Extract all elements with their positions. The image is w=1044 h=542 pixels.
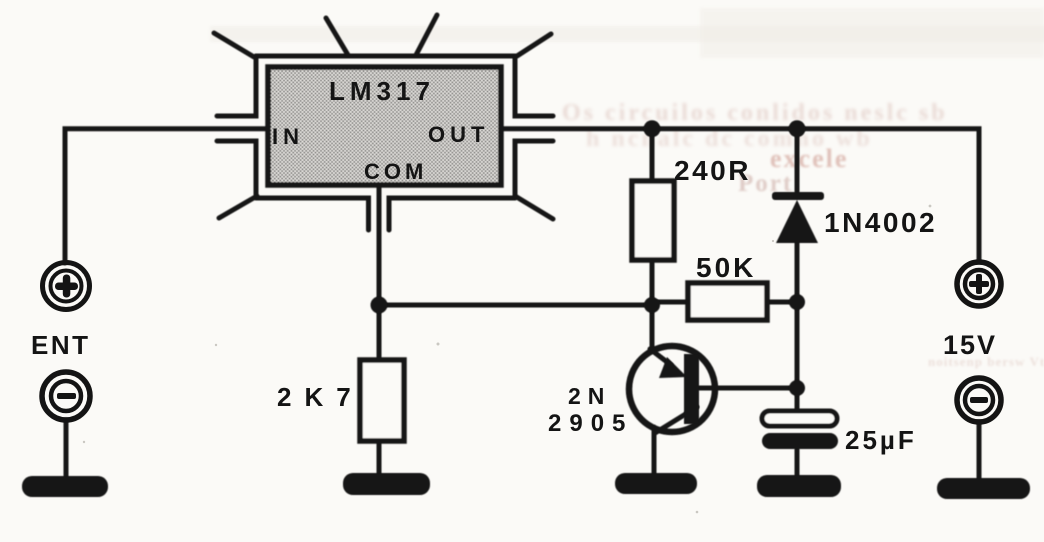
- terminal input plus: [43, 263, 90, 310]
- wire: COM pin down to node: [377, 185, 382, 305]
- node C junction diode top: [789, 120, 806, 137]
- wire: node to 240R/50K junction: [379, 303, 652, 308]
- svg-text:1N4002: 1N4002: [824, 207, 937, 238]
- svg-text:OUT: OUT: [428, 122, 489, 147]
- wire: base to diode/cap node: [699, 386, 797, 391]
- heat ray top mid-left: [326, 18, 348, 55]
- bleed-through text line 4: [738, 170, 793, 197]
- svg-text:2905: 2905: [548, 410, 633, 437]
- paper specks: [83, 205, 932, 514]
- LM317 outer outline top edge: [256, 54, 515, 59]
- node D junction 240R bottom: [644, 297, 660, 313]
- LM317 outer outline left edge lower with tick: [217, 141, 256, 198]
- transistor Q1 emitter arrowhead: [659, 357, 687, 378]
- svg-text:15V: 15V: [943, 330, 997, 360]
- diode D1 cathode bar: [772, 192, 824, 200]
- diode D1 top lead: [795, 129, 800, 192]
- bleed-through text line 2: [586, 126, 873, 152]
- transistor Q1 collector diagonal: [655, 407, 697, 433]
- paper wash top: [210, 26, 1044, 42]
- svg-text:LM317: LM317: [329, 76, 435, 106]
- bleed-through text line 3: [770, 144, 848, 173]
- node B junction 240R top: [644, 120, 661, 137]
- terminal input minus: [42, 372, 90, 420]
- ground 2K7: [343, 473, 430, 495]
- op-amp U1 LM317 regulator body: [268, 67, 501, 185]
- heat ray top mid-right: [416, 15, 437, 55]
- svg-text:IN: IN: [272, 124, 304, 149]
- svg-text:ENT: ENT: [31, 330, 91, 360]
- transistor Q1 2N2905 emitter lead: [650, 305, 655, 351]
- LM317 outer outline bottom-right edge with COM stub: [389, 198, 515, 230]
- heat ray bottom-left: [219, 196, 257, 218]
- heat ray top-right: [517, 34, 551, 56]
- bleed-through text line 1: [562, 100, 948, 126]
- terminal output plus: [957, 262, 1001, 306]
- svg-text:50K: 50K: [696, 252, 756, 283]
- ground capacitor: [757, 475, 841, 497]
- LM317 outer outline right edge lower with tick: [515, 141, 553, 198]
- LM317 outer outline bottom-left edge with COM stub: [256, 198, 369, 230]
- LM317 outer outline right edge upper with tick: [515, 56, 553, 116]
- minus bar input: [57, 393, 76, 399]
- resistor R1 240R top lead: [650, 129, 655, 181]
- resistor R2 50K left lead: [652, 300, 688, 305]
- LM317 outer outline left edge upper with tick: [217, 56, 256, 116]
- resistor R1 240R body: [632, 181, 674, 260]
- transistor Q1 base bar: [684, 354, 699, 424]
- capacitor C1 bottom plate: [762, 433, 838, 449]
- node E junction 50K right: [789, 294, 805, 310]
- wire: IN rail from input terminal to IC: [65, 129, 268, 263]
- ground transistor: [615, 473, 697, 494]
- wire: input minus terminal to ground: [64, 420, 69, 478]
- resistor R3 2K7 body: [360, 360, 404, 441]
- svg-text:2K7: 2K7: [277, 382, 364, 412]
- resistor R2 50K body: [688, 283, 767, 320]
- capacitor C1 bottom lead: [795, 449, 800, 478]
- heat ray bottom-right: [515, 196, 553, 219]
- resistor R3 2K7 bottom lead: [377, 441, 382, 478]
- diode D1 bottom lead: [795, 240, 800, 413]
- svg-text:25µF: 25µF: [845, 425, 917, 455]
- transistor Q1 collector lead down: [652, 427, 657, 476]
- transistor Q1 2N2905 circle: [629, 346, 715, 432]
- svg-text:2N: 2N: [568, 383, 611, 409]
- node F junction base: [789, 380, 805, 396]
- resistor R2 50K right lead: [767, 300, 797, 305]
- resistor R1 240R bottom lead: [650, 260, 655, 305]
- ground output: [937, 478, 1030, 499]
- transistor Q1 emitter diagonal: [650, 349, 671, 365]
- minus bar output: [970, 397, 988, 403]
- resistor R3 2K7 top lead: [377, 305, 382, 360]
- svg-text:excele: excele: [770, 144, 848, 173]
- svg-text:Os circuilos conlidos neslc sb: Os circuilos conlidos neslc sb: [562, 100, 948, 126]
- diode D1 triangle: [776, 200, 818, 243]
- wire: OUT rail from IC to output terminal: [501, 129, 979, 262]
- node A junction COM: [371, 297, 388, 314]
- ground input: [22, 476, 108, 497]
- svg-text:240R: 240R: [674, 155, 751, 186]
- heat ray top-left: [214, 33, 254, 57]
- wire: output minus terminal to ground: [977, 422, 982, 480]
- bleed-through smudge under 15V: [928, 354, 1044, 369]
- svg-text:COM: COM: [364, 159, 427, 184]
- capacitor C1 top plate: [762, 411, 837, 426]
- terminal output minus: [957, 378, 1001, 422]
